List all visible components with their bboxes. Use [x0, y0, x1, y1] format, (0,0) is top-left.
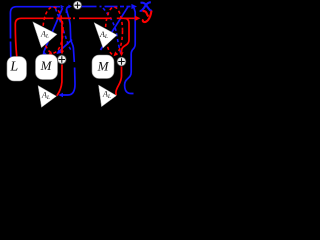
wire: red corner turning down into P2 [57, 18, 62, 52]
wire: red from P3 bottom down to A4 tip [116, 67, 122, 96]
block L [7, 57, 27, 82]
wire: red dashed loop arc around A1/M1 [43, 7, 63, 53]
wire: blue dash-dot rail from P1 to x output [81, 6, 130, 8]
svg-text:M: M [40, 58, 53, 73]
wire: red dash-dot rail to y output [57, 17, 135, 19]
op-amp A1 [33, 22, 57, 48]
wire: blue right vine from top rail down to bottom right [125, 8, 136, 94]
node label y [143, 11, 152, 22]
op-amp A3 [38, 86, 57, 108]
block M1 [36, 55, 58, 80]
wire: red right corner branch down to P3 [122, 18, 130, 54]
summer P1 [73, 1, 81, 9]
svg-text:M: M [97, 59, 110, 74]
wire: red riser from L top to red rail [15, 18, 53, 57]
svg-text:L: L [9, 60, 18, 75]
wire: blue arrowhead at x output [131, 4, 137, 9]
wire: red arrowhead at y output [135, 16, 141, 21]
background [0, 0, 154, 113]
summer P2 [58, 55, 67, 64]
wire: blue arrowhead into top junction [61, 5, 65, 9]
summer P3 [117, 57, 126, 66]
wire: red arrowhead into P2 top [60, 51, 64, 55]
wire: blue elbow junction into summer P1 [67, 7, 71, 13]
wire: blue arrowhead into A3 tip junction [58, 93, 63, 97]
wire: blue long diagonal from M2/A2 bottom up to top rail arrow [101, 7, 129, 50]
wire: red dashed arrowhead into M1 top [48, 51, 52, 55]
wire: blue long diagonal from M1 top behind A1 to top junction [44, 8, 63, 53]
wire: blue arrowhead into P1 [68, 5, 72, 9]
wire: red dashed arrowhead into M2 corner [114, 51, 119, 56]
block M2 [92, 55, 114, 79]
wire: blue dashed diagonal from rail down to M2 corner [103, 8, 121, 55]
wire: red dashed diagonal from rail down to P3 top [106, 7, 123, 55]
wire: blue dashed diagonal near A1 [56, 9, 72, 51]
op-amp A4 [99, 85, 117, 107]
wire: blue branch from vine into M1 top right corner [58, 40, 72, 53]
wire: red from A3 tip up into P2 bottom [57, 65, 62, 96]
wire: blue riser from L top to blue rail [10, 7, 60, 57]
node label x [140, 2, 152, 11]
wire: blue middle vine from top junction down to bottom left rail [67, 9, 75, 62]
op-amp A2 [94, 23, 117, 49]
